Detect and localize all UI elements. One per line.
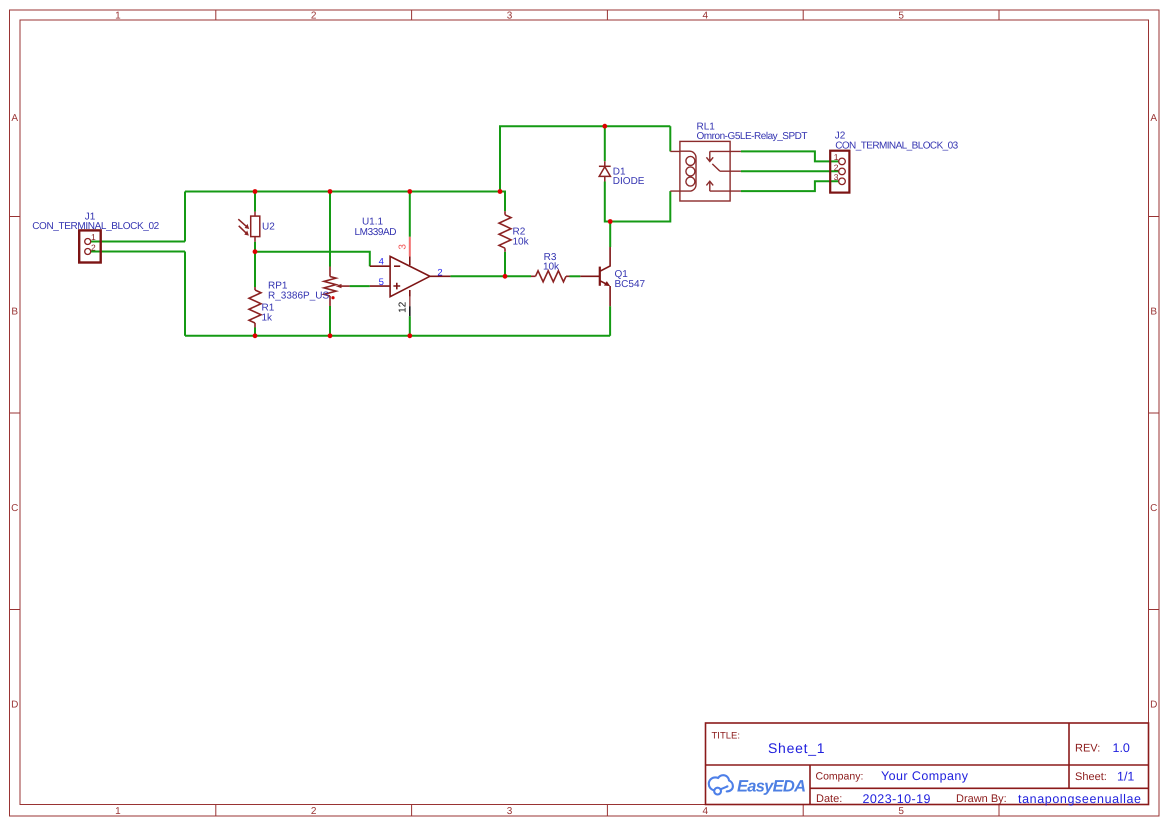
junction node opamp pin3 top bus	[407, 189, 412, 194]
svg-text:B: B	[11, 307, 18, 318]
svg-text:1.0: 1.0	[1113, 741, 1130, 755]
svg-text:EasyEDA: EasyEDA	[737, 778, 806, 796]
frame column numbers top	[115, 10, 904, 21]
wire node to relay coil return	[610, 191, 670, 221]
wire inverting input	[255, 252, 370, 267]
wire opamp pin3 supply	[409, 192, 411, 237]
wire D1 top	[604, 126, 606, 161]
frame row ticks left	[10, 217, 21, 610]
svg-text:4: 4	[703, 10, 709, 21]
Q1 emitter arrowhead	[604, 281, 610, 286]
svg-text:10k: 10k	[513, 236, 530, 247]
svg-text:C: C	[1150, 503, 1157, 514]
relay RL1	[670, 141, 741, 201]
junction node D1 top bus	[602, 124, 607, 129]
frame column numbers bottom	[115, 806, 904, 817]
svg-text:4: 4	[379, 257, 384, 268]
wire D1 bottom to node	[605, 182, 610, 222]
junction node output R2-R3	[503, 274, 508, 279]
diode D1	[599, 161, 611, 181]
svg-text:Omron-G5LE-Relay_SPDT: Omron-G5LE-Relay_SPDT	[697, 131, 808, 142]
junction node U2 top bus	[253, 189, 258, 194]
junction node D1-relay-Q1	[608, 219, 613, 224]
wire Q1 emitter to bus	[609, 306, 611, 336]
RP1 wiper dot	[331, 296, 334, 299]
svg-text:Your Company: Your Company	[881, 769, 969, 783]
svg-text:2: 2	[311, 806, 317, 817]
svg-text:3: 3	[397, 244, 408, 250]
svg-text:D: D	[1150, 700, 1157, 711]
op-amp pin12 ground stub	[409, 297, 411, 307]
wire RP1 bottom to bus	[329, 306, 331, 336]
frame row letters left	[11, 113, 18, 711]
svg-text:DIODE: DIODE	[613, 176, 645, 187]
wire node to R1 top	[254, 252, 256, 287]
junction node bus corner R2	[498, 189, 503, 194]
wire RP1 wiper to non-inverting input	[350, 285, 370, 287]
wire top bus riser and run to relay	[500, 126, 670, 191]
svg-text:12: 12	[398, 301, 409, 313]
svg-text:Sheet_1: Sheet_1	[768, 740, 825, 756]
svg-text:Sheet:: Sheet:	[1075, 771, 1107, 783]
wire bottom bus	[185, 335, 610, 337]
wire relay COM contact to J2 pin2	[741, 170, 839, 172]
wire opamp pin12 to bus	[409, 316, 411, 336]
svg-text:1k: 1k	[262, 312, 274, 323]
svg-text:tanapongseenuallae: tanapongseenuallae	[1018, 792, 1141, 806]
svg-text:5: 5	[379, 277, 384, 288]
wire J1 pin1 to corner	[91, 241, 185, 243]
svg-text:Drawn By:: Drawn By:	[956, 793, 1007, 805]
frame row letters right	[1150, 113, 1157, 711]
resistor R1	[249, 287, 261, 328]
resistor R2	[499, 211, 511, 252]
wire R1 bottom to bus	[254, 328, 256, 336]
svg-text:2: 2	[311, 10, 317, 21]
svg-text:1: 1	[115, 10, 121, 21]
svg-text:2023-10-19: 2023-10-19	[863, 792, 931, 806]
EasyEDA logo cloud	[709, 775, 733, 794]
wire U2 bottom to node	[254, 242, 256, 252]
svg-text:5: 5	[898, 10, 904, 21]
wire top-left bus	[185, 191, 500, 193]
svg-text:1: 1	[91, 232, 96, 242]
svg-text:1: 1	[115, 806, 121, 817]
wire node down to Q1 collector	[609, 222, 611, 248]
svg-text:U1.1: U1.1	[362, 217, 384, 228]
wire relay NO contact to J2 pin1	[741, 151, 839, 161]
RP1 wiper arrowhead	[336, 284, 342, 288]
wire U2 top	[254, 192, 256, 212]
svg-text:1: 1	[834, 152, 839, 162]
wire J1 pin2 corner down to bottom bus	[184, 252, 186, 336]
svg-text:Company:: Company:	[816, 771, 864, 783]
svg-text:B: B	[1150, 307, 1157, 318]
wire RP1 top	[329, 192, 331, 267]
junction node opamp pin12 bottom bus	[407, 333, 412, 338]
photoresistor U2	[238, 212, 259, 242]
junction node RP1 bottom bus	[328, 333, 333, 338]
svg-text:5: 5	[898, 806, 904, 817]
svg-text:1/1: 1/1	[1117, 770, 1134, 784]
svg-text:2: 2	[437, 267, 442, 278]
svg-text:3: 3	[507, 806, 513, 817]
svg-text:REV:: REV:	[1075, 743, 1100, 755]
svg-text:10k: 10k	[543, 261, 560, 272]
resistor R3	[531, 271, 570, 282]
junction node RP1 top bus	[328, 189, 333, 194]
svg-text:4: 4	[703, 806, 709, 817]
op-amp U1.1	[370, 256, 451, 296]
svg-text:TITLE:: TITLE:	[712, 731, 741, 742]
svg-text:LM339AD: LM339AD	[355, 227, 397, 238]
svg-text:D: D	[11, 700, 18, 711]
wire R3 to Q1 base	[570, 275, 581, 277]
svg-text:2: 2	[834, 162, 839, 172]
frame row ticks right	[1149, 217, 1160, 610]
wire J1 pin1 corner up to top bus	[184, 192, 186, 242]
wire jog to R2 column	[500, 192, 505, 212]
svg-text:C: C	[11, 503, 18, 514]
svg-text:CON_TERMINAL_BLOCK_02: CON_TERMINAL_BLOCK_02	[32, 221, 159, 232]
svg-text:A: A	[1150, 113, 1157, 124]
junction node R1 bottom bus	[253, 333, 258, 338]
transistor Q1	[580, 247, 610, 306]
connector J2	[830, 151, 849, 193]
wire relay NC contact to J2 pin3	[741, 181, 839, 191]
svg-text:3: 3	[834, 172, 839, 182]
op-amp pin3 power stub	[409, 237, 411, 257]
wire relay coil plus	[669, 126, 671, 151]
frame column ticks bottom	[216, 805, 999, 817]
junction node U2-R1-opamp	[253, 249, 258, 254]
wire output node to R3	[505, 275, 531, 277]
wire R2 bottom	[504, 252, 506, 276]
svg-text:BC547: BC547	[615, 279, 646, 290]
frame column ticks top	[216, 10, 999, 20]
title block outline	[706, 723, 1149, 805]
svg-text:Date:: Date:	[816, 793, 842, 805]
potentiometer RP1	[324, 267, 350, 307]
svg-text:3: 3	[507, 10, 513, 21]
svg-text:U2: U2	[262, 221, 275, 232]
wire opamp output	[450, 275, 505, 277]
svg-text:R_3386P_US: R_3386P_US	[268, 290, 329, 301]
svg-text:A: A	[11, 113, 18, 124]
wire J1 pin2 to corner	[91, 251, 185, 253]
svg-text:CON_TERMINAL_BLOCK_03: CON_TERMINAL_BLOCK_03	[835, 140, 958, 151]
connector J1	[79, 230, 101, 262]
svg-text:2: 2	[91, 242, 96, 252]
